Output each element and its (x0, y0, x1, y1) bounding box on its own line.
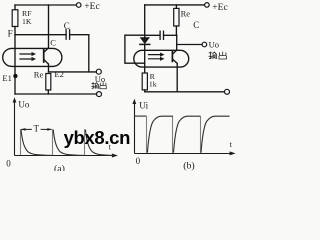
wire: output tap (b) (177, 44, 202, 46)
wire: left vertical through package (b) (144, 45, 146, 73)
svg-text:0: 0 (136, 156, 141, 166)
svg-text:E2: E2 (54, 69, 63, 79)
diode D (b) (141, 38, 150, 44)
phototransistor (b) emitter lead (173, 60, 177, 92)
terminal +Ec (b) (205, 3, 210, 8)
wire: capacitor wire left (b) (145, 34, 160, 36)
decay curve 3 (a) (85, 130, 113, 156)
wire: right vertical to output (a) (88, 35, 90, 72)
waveform rise 2 (b) (174, 116, 201, 153)
svg-text:T: T (34, 123, 40, 133)
terminal +Ec (a) (76, 3, 81, 8)
svg-text:Re: Re (181, 8, 191, 18)
optocoupler package (b) (134, 50, 189, 67)
resistor RF (12, 10, 18, 27)
svg-text:F: F (8, 29, 13, 39)
waveform drops (b) (147, 116, 201, 153)
resistor Re (a) (46, 74, 51, 91)
axis Y graph (b) (134, 103, 136, 154)
terminal Uo (b) (202, 42, 207, 47)
svg-text:ybx8.cn: ybx8.cn (64, 127, 130, 148)
decay curve 1 (a) (21, 130, 52, 156)
decay curve 2 (a) (53, 130, 84, 156)
wire: Re bottom lead (47, 90, 49, 94)
axis Y graph (a) (14, 101, 16, 156)
svg-text:Uo: Uo (18, 100, 29, 110)
LED light arrows (a) (20, 54, 32, 59)
wire: loop to LED anode (125, 35, 145, 63)
phototransistor (a) base bar (43, 50, 45, 62)
svg-text:t: t (230, 140, 233, 149)
svg-text:+Ec: +Ec (212, 3, 227, 13)
svg-text:(a): (a) (54, 164, 65, 171)
waveform flat top 0 (b) (135, 115, 147, 117)
wire: emitter node to output terminal (a) (49, 71, 97, 73)
capacitor C (a) (66, 30, 70, 39)
wire: collector vertical (a) (48, 5, 50, 48)
svg-text:1k: 1k (149, 80, 157, 89)
axis X graph (a) (15, 155, 114, 157)
node E1 dot (13, 74, 17, 78)
wire: R bottom lead (144, 90, 146, 92)
svg-text:C: C (193, 20, 199, 30)
spike pulses (a) (21, 129, 85, 155)
capacitor C (b) (160, 31, 163, 39)
waveform rise 1 (b) (147, 116, 173, 153)
wire: left rail upper (a) (14, 5, 16, 10)
phototransistor (b) base bar (171, 52, 173, 62)
resistor Re (b) (174, 8, 179, 26)
wire: bottom rail (b) (145, 91, 225, 93)
period T dimension line (21, 128, 51, 130)
svg-text:(b): (b) (183, 160, 194, 171)
wire: top rail (a) (15, 4, 76, 6)
svg-text:0: 0 (6, 159, 11, 169)
phototransistor (a) emitter lead (44, 60, 48, 72)
phototransistor (b) collector lead (173, 50, 177, 54)
svg-text:Re: Re (34, 69, 44, 79)
wire: Re bottom lead to cap node (b) (175, 26, 177, 35)
wire: collector vertical (b) (176, 35, 178, 50)
LED light arrows (b) (149, 55, 161, 59)
wire: capacitor to collector line (b) (164, 34, 177, 36)
wire: bottom rail (a) (15, 93, 97, 95)
wire: capacitor to right vertical (70, 34, 89, 36)
label 输出 (b) (209, 52, 226, 59)
svg-text:Uo: Uo (209, 40, 219, 50)
svg-text:C: C (50, 37, 56, 47)
wire: left rail lower (a) (14, 27, 16, 95)
wire: Re top lead (b) (175, 5, 177, 8)
svg-text:+Ec: +Ec (84, 2, 99, 12)
svg-text:E1: E1 (2, 73, 11, 83)
phototransistor (a) collector lead (44, 48, 48, 52)
axis X graph (b) (135, 153, 231, 155)
terminal Uo bottom (a) (97, 92, 102, 97)
svg-text:C: C (64, 21, 70, 31)
wire: feedback wire from F to capacitor (15, 34, 66, 36)
svg-text:1K: 1K (22, 17, 32, 26)
resistor R (b) (142, 73, 147, 90)
label 输出 (a) (92, 82, 107, 88)
wire: left vertical upper (b) (144, 5, 146, 38)
terminal Uo top (a) (96, 69, 101, 74)
terminal bottom right (b) (225, 89, 230, 94)
wire: top rail (b) (145, 4, 205, 6)
svg-text:Ui: Ui (139, 101, 148, 111)
waveform rise 3 (b) (201, 116, 230, 153)
optocoupler package (a) (3, 48, 62, 66)
